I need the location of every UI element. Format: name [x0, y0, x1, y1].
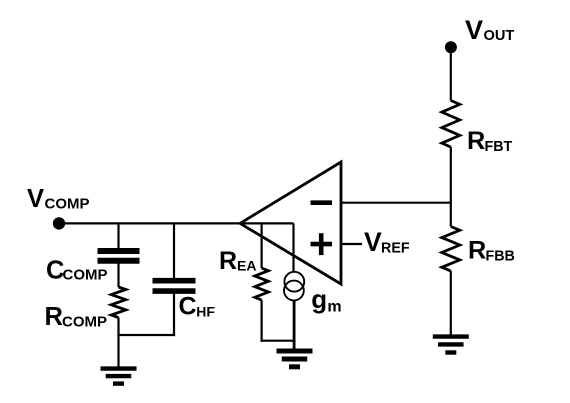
svg-text:R: R — [219, 247, 237, 275]
svg-text:g: g — [311, 284, 327, 314]
svg-text:REF: REF — [381, 241, 410, 257]
svg-text:R: R — [468, 237, 486, 265]
svg-text:COMP: COMP — [45, 196, 90, 213]
svg-text:R: R — [45, 303, 63, 331]
svg-text:EA: EA — [237, 258, 256, 274]
svg-text:HF: HF — [196, 303, 215, 319]
svg-text:V: V — [465, 15, 483, 45]
svg-text:V: V — [364, 227, 382, 257]
svg-text:V: V — [27, 185, 44, 213]
svg-text:COMP: COMP — [62, 314, 107, 331]
svg-text:m: m — [327, 299, 341, 316]
svg-text:C: C — [179, 293, 197, 321]
svg-text:OUT: OUT — [484, 28, 515, 44]
svg-text:R: R — [467, 127, 485, 155]
svg-text:COMP: COMP — [63, 267, 108, 284]
svg-text:FBB: FBB — [486, 249, 515, 265]
svg-text:FBT: FBT — [485, 139, 513, 155]
